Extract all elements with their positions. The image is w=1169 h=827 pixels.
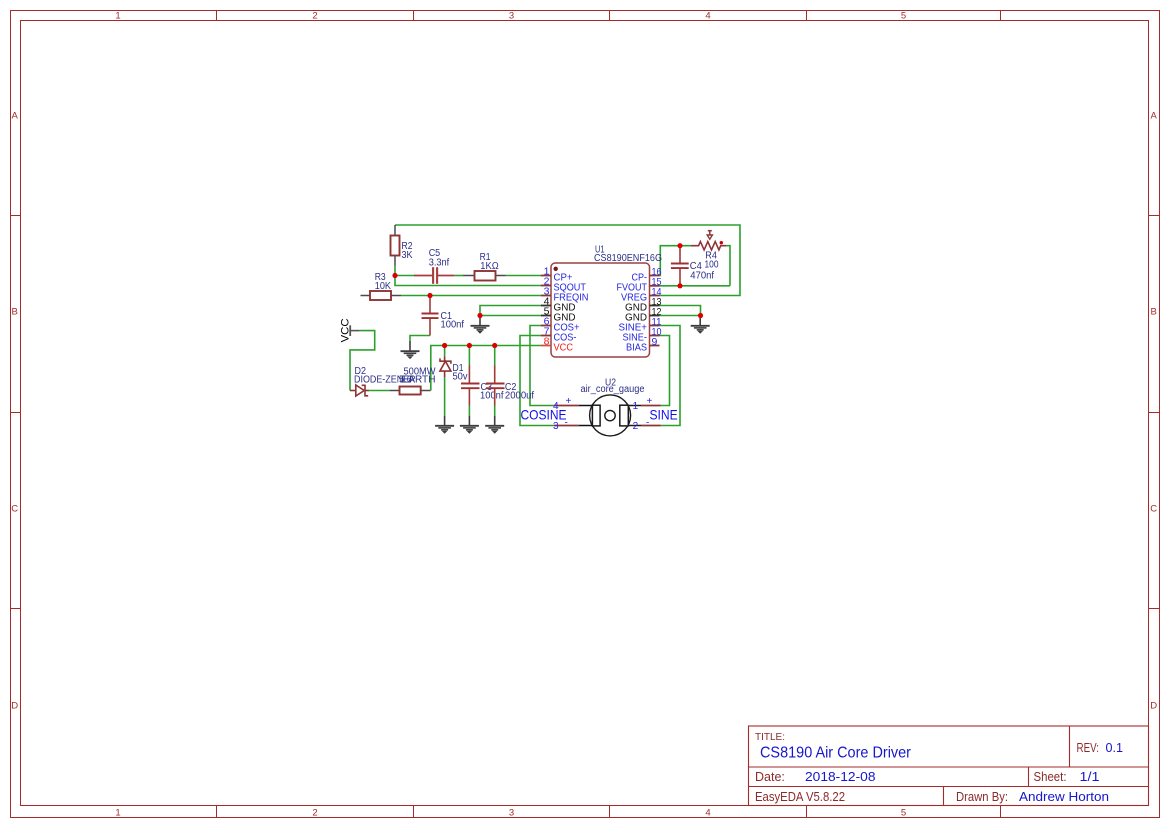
junction C4 top [677,243,682,248]
svg-text:TITLE:: TITLE: [755,732,785,743]
wire pin 10 SINE- to gauge pin 1 [660,336,670,406]
wire pin 4 GND to ground [480,306,541,316]
svg-text:2000uf: 2000uf [505,391,534,402]
junction C4 bottom [677,283,682,288]
wire R4 right down [726,246,730,286]
wire pin 6 COS+ to gauge pin 4 [530,326,554,406]
wire R3 to pin 3 FREQIN [401,295,541,297]
wire node A to C5 [395,275,415,277]
svg-text:REV:: REV: [1077,741,1100,755]
U1 right pin numbers [652,266,662,348]
capacitor C2 [486,366,534,406]
U2 pin stubs [554,406,661,426]
svg-text:D: D [11,701,18,712]
svg-text:50v: 50v [453,372,468,383]
svg-text:Date:: Date: [755,770,785,784]
svg-text:470nf: 470nf [690,271,714,282]
resistor R3 [361,272,402,300]
svg-text:5: 5 [901,11,906,22]
capacitor C5 [414,248,454,284]
wire C5 to R1 [454,275,464,277]
resistor EARTH 500MW [390,367,436,395]
svg-text:3: 3 [509,11,514,22]
svg-text:VCC: VCC [554,342,574,354]
svg-text:CS8190ENF16G: CS8190ENF16G [594,253,662,264]
wire pin 11 SINE+ to gauge pin 2 [660,326,681,426]
svg-text:B: B [12,307,18,318]
svg-text:CS8190 Air Core Driver: CS8190 Air Core Driver [760,745,912,762]
svg-text:5: 5 [901,808,906,819]
svg-text:A: A [1151,111,1158,122]
junction VCC rail / C3 [467,343,472,348]
svg-text:EARTH: EARTH [402,375,436,386]
svg-text:3K: 3K [402,250,413,261]
wire pin 7 COS- to gauge pin 3 [520,336,554,426]
ground (D1) [435,416,454,433]
svg-text:2: 2 [312,11,317,22]
svg-text:2: 2 [633,421,639,432]
ground (C2) [485,416,504,433]
capacitor C1 [422,296,465,336]
svg-text:100nf: 100nf [441,320,465,331]
node dot R4 right [720,241,723,244]
junction VCC rail / C2 [492,343,497,348]
svg-text:1: 1 [633,401,639,412]
svg-text:4: 4 [705,11,710,22]
svg-text:A: A [12,111,19,122]
svg-text:COSINE: COSINE [521,406,567,422]
wire node A to pin 2 SQOUT [395,276,541,286]
ground (pins 4,5) [471,316,490,334]
U2 pin numbers and polarity [553,396,653,432]
junction gnd pins 4,5 [477,313,482,318]
wire R2 bottom to node A [394,266,396,276]
svg-text:SINE: SINE [650,406,678,422]
svg-text:9: 9 [652,336,658,348]
capacitor C4 [671,246,714,286]
wire pin 12 GND to ground [660,315,701,317]
ground (C1) [401,341,420,359]
svg-text:8: 8 [544,336,550,348]
wire D2 to R-earth [369,390,389,392]
svg-text:3: 3 [509,808,514,819]
svg-text:1KΩ: 1KΩ [480,261,499,272]
svg-text:1: 1 [115,11,120,22]
wire C3 leg [468,346,470,366]
U1 left pin numbers [544,266,550,348]
U1 left pin stubs [541,276,551,346]
svg-text:EasyEDA V5.8.22: EasyEDA V5.8.22 [755,790,845,804]
svg-text:Sheet:: Sheet: [1034,770,1067,784]
wire C1 to ground [410,336,430,342]
ground (C3) [460,416,479,433]
op-amp U1 body [551,245,662,358]
wire R-earth to VCC rail [431,346,541,391]
svg-text:BIAS: BIAS [626,342,647,354]
capacitor C3 [461,366,504,406]
wire C2 leg [494,346,496,366]
VCC net symbol [339,318,359,342]
U1 left pin names [554,272,589,354]
svg-text:Drawn By:: Drawn By: [956,790,1008,804]
wire D1 leg [444,346,446,357]
wire pin 13 GND to ground [660,306,701,316]
diode D1 zener [440,357,468,383]
wire top loop (node CP+ / R2 top to VREG) [395,225,740,296]
svg-text:D: D [1150,701,1157,712]
svg-text:2: 2 [312,808,317,819]
ground (pins 12,13) [691,316,710,334]
resistor R1 [464,252,506,281]
svg-text:air_core_gauge: air_core_gauge [581,384,645,395]
junction FREQIN/C1 [427,293,432,298]
svg-text:100: 100 [705,259,719,270]
title block [749,726,1149,806]
svg-text:0.1: 0.1 [1106,741,1124,755]
svg-text:3: 3 [553,421,559,432]
svg-text:C: C [1150,504,1157,515]
wire pin 5 GND to ground [480,315,541,317]
U1 right pin stubs [650,276,660,346]
resistor R2 [391,225,413,266]
svg-text:C: C [11,504,18,515]
svg-text:2018-12-08: 2018-12-08 [805,770,876,784]
wire R1 to pin 1 [506,275,542,277]
svg-text:VCC: VCC [339,318,351,342]
svg-text:100nf: 100nf [480,391,504,402]
R4 adjust arrow [707,231,712,240]
svg-text:3.3nf: 3.3nf [429,257,450,268]
U1 right pin names [617,272,648,354]
svg-text:B: B [1151,307,1157,318]
svg-text:4: 4 [705,808,710,819]
wire VCC to D2 [350,331,375,391]
air core gauge U2 [579,378,645,436]
svg-text:1/1: 1/1 [1080,770,1100,784]
wire pin 15 FVOUT to C4 bottom [660,285,731,287]
junction VCC rail / D1 [442,343,447,348]
resistor R4 (zigzag) [691,242,726,271]
diode D2 zener [350,366,416,396]
svg-text:10K: 10K [375,281,391,292]
junction node A (395,275.5) [392,273,397,278]
svg-text:Andrew Horton: Andrew Horton [1019,790,1109,804]
svg-text:1: 1 [115,808,120,819]
junction gnd pins 12,13 [698,313,703,318]
wire pin 16 CP- to R4/C4 top [660,246,692,276]
